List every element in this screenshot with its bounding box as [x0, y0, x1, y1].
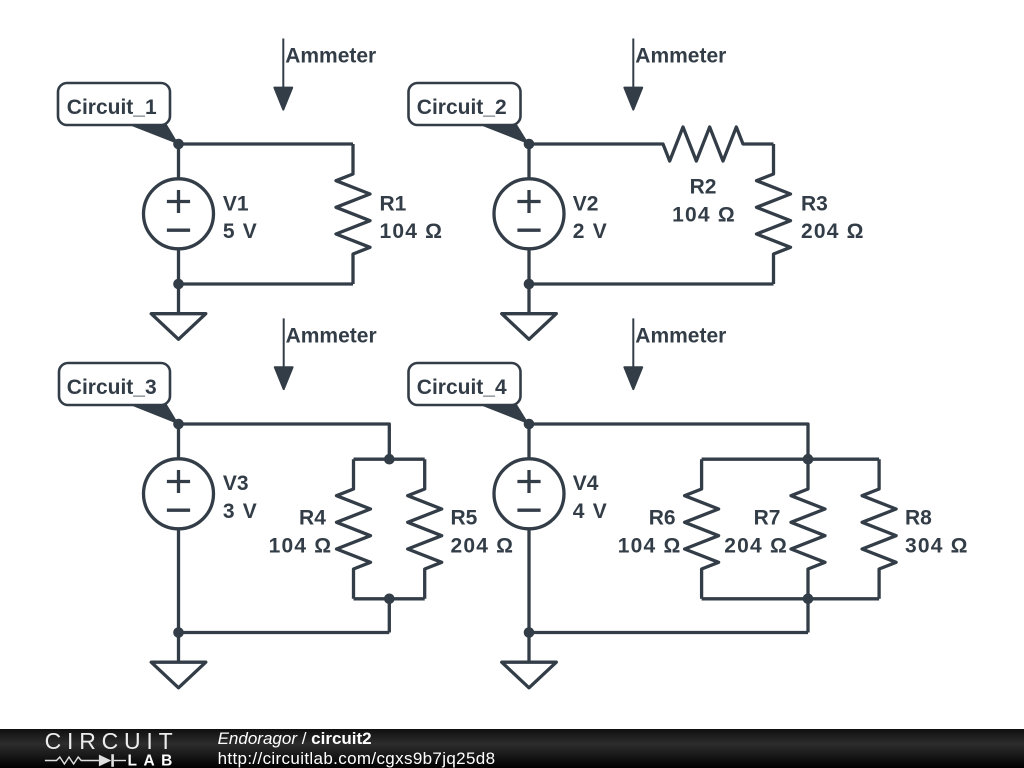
- svg-text:Endoragor / circuit2: Endoragor / circuit2: [218, 729, 372, 748]
- svg-text:R4: R4: [299, 507, 326, 530]
- svg-text:Ammeter: Ammeter: [286, 325, 377, 348]
- net label box Circuit_2: [409, 83, 521, 125]
- wire bottom Circuit_4: [529, 631, 808, 634]
- parallel rail top Circuit_4: [702, 458, 880, 461]
- net label tail Circuit_3: [125, 403, 179, 425]
- label R1: [380, 193, 444, 243]
- resistor R4: [337, 459, 371, 599]
- resistor R6: [685, 459, 719, 599]
- net label tail Circuit_4: [475, 403, 529, 425]
- node dot Circuit_4 rail bottom: [803, 594, 814, 605]
- label R2: [672, 176, 736, 227]
- svg-text:CIRCUIT: CIRCUIT: [45, 728, 179, 754]
- svg-text:Circuit_4: Circuit_4: [417, 376, 507, 399]
- svg-text:Circuit_3: Circuit_3: [67, 376, 157, 399]
- svg-text:LAB: LAB: [128, 753, 179, 768]
- parallel rail bottom Circuit_3: [354, 597, 425, 600]
- net label tail Circuit_2: [475, 123, 529, 145]
- svg-text:204 Ω: 204 Ω: [451, 535, 515, 558]
- voltage source V4: [494, 424, 564, 633]
- svg-text:3 V: 3 V: [223, 500, 258, 523]
- wire bottom Circuit_3: [179, 631, 390, 634]
- wire top Circuit_2 + resistor R2: [529, 127, 774, 161]
- wire top Circuit_4: [529, 424, 808, 459]
- ground Circuit_3: [151, 633, 206, 688]
- svg-text:V1: V1: [223, 193, 249, 216]
- svg-text:R3: R3: [801, 193, 828, 216]
- wire top Circuit_1: [179, 142, 354, 145]
- net label box Circuit_1: [58, 83, 170, 125]
- net label box Circuit_4: [409, 363, 521, 405]
- net label tail Circuit_1: [124, 123, 179, 145]
- svg-text:5 V: 5 V: [223, 220, 258, 243]
- node dot Circuit_3 top: [173, 419, 184, 430]
- svg-text:4 V: 4 V: [573, 500, 608, 523]
- svg-text:V2: V2: [573, 193, 599, 216]
- svg-text:R2: R2: [690, 176, 717, 199]
- resistor R1: [336, 144, 370, 284]
- svg-text:104 Ω: 104 Ω: [269, 535, 333, 558]
- ammeter arrow 3 (Circuit_3): [275, 318, 293, 389]
- net label box Circuit_3: [59, 363, 170, 405]
- label R5: [451, 507, 515, 558]
- label V2: [573, 193, 608, 243]
- wire rail to bottom Circuit_3: [388, 599, 391, 633]
- footer logo squiggle (resistor + diode): [45, 754, 126, 767]
- node dot Circuit_3 rail top: [384, 454, 395, 465]
- svg-text:104 Ω: 104 Ω: [672, 203, 736, 226]
- resistor R3: [757, 144, 791, 284]
- ammeter arrow 1 (Circuit_1): [274, 39, 292, 110]
- wire bottom Circuit_1: [179, 282, 354, 285]
- voltage source V2: [494, 144, 564, 284]
- label R3: [801, 193, 865, 243]
- svg-text:Ammeter: Ammeter: [285, 45, 376, 68]
- ammeter arrow 2 (Circuit_2): [624, 39, 642, 110]
- svg-text:Ammeter: Ammeter: [635, 325, 726, 348]
- svg-text:2 V: 2 V: [573, 220, 608, 243]
- resistor R5: [408, 459, 442, 599]
- svg-text:Circuit_1: Circuit_1: [67, 96, 157, 119]
- svg-text:304 Ω: 304 Ω: [905, 535, 969, 558]
- node dot Circuit_2 bottom: [524, 279, 535, 290]
- node dot Circuit_4 bottom: [524, 627, 535, 638]
- footer bar: [0, 729, 1024, 768]
- label V1: [223, 193, 258, 243]
- svg-text:Ammeter: Ammeter: [635, 45, 726, 68]
- label V3: [223, 472, 258, 523]
- node dot Circuit_4 rail top: [803, 454, 814, 465]
- node dot Circuit_3 rail bottom: [384, 594, 395, 605]
- label R4: [269, 507, 333, 558]
- label R8: [905, 507, 969, 558]
- ground Circuit_1: [151, 284, 206, 339]
- svg-text:R8: R8: [905, 507, 932, 530]
- label V4: [573, 472, 608, 523]
- voltage source V3: [144, 424, 214, 633]
- parallel rail top Circuit_3: [354, 458, 425, 461]
- node dot Circuit_3 bottom: [173, 627, 184, 638]
- label R6: [618, 507, 682, 558]
- ground Circuit_2: [502, 284, 557, 339]
- svg-text:V3: V3: [223, 472, 249, 495]
- wire bottom Circuit_2: [529, 282, 774, 285]
- svg-text:104 Ω: 104 Ω: [618, 535, 682, 558]
- label R7: [724, 507, 788, 558]
- svg-text:R5: R5: [451, 507, 478, 530]
- node dot Circuit_4 top: [524, 419, 535, 430]
- svg-text:204 Ω: 204 Ω: [801, 220, 865, 243]
- node dot Circuit_1 top: [173, 139, 184, 150]
- svg-text:R7: R7: [754, 507, 781, 530]
- svg-text:104 Ω: 104 Ω: [380, 220, 444, 243]
- voltage source V1: [144, 144, 214, 284]
- node dot Circuit_1 bottom: [173, 279, 184, 290]
- svg-text:V4: V4: [573, 472, 599, 495]
- node dot Circuit_2 top: [524, 139, 535, 150]
- wire top Circuit_3: [179, 424, 390, 459]
- svg-text:Circuit_2: Circuit_2: [417, 96, 507, 119]
- wire rail to bottom Circuit_4: [806, 599, 809, 633]
- svg-text:R6: R6: [649, 507, 676, 530]
- svg-text:R1: R1: [380, 193, 407, 216]
- ground Circuit_4: [502, 633, 557, 688]
- resistor R7: [791, 459, 825, 599]
- parallel rail bottom Circuit_4: [702, 597, 880, 600]
- ammeter arrow 4 (Circuit_4): [624, 318, 642, 389]
- svg-text:204 Ω: 204 Ω: [724, 535, 788, 558]
- resistor R8: [862, 459, 896, 599]
- svg-text:http://circuitlab.com/cgxs9b7j: http://circuitlab.com/cgxs9b7jq25d8: [218, 749, 496, 768]
